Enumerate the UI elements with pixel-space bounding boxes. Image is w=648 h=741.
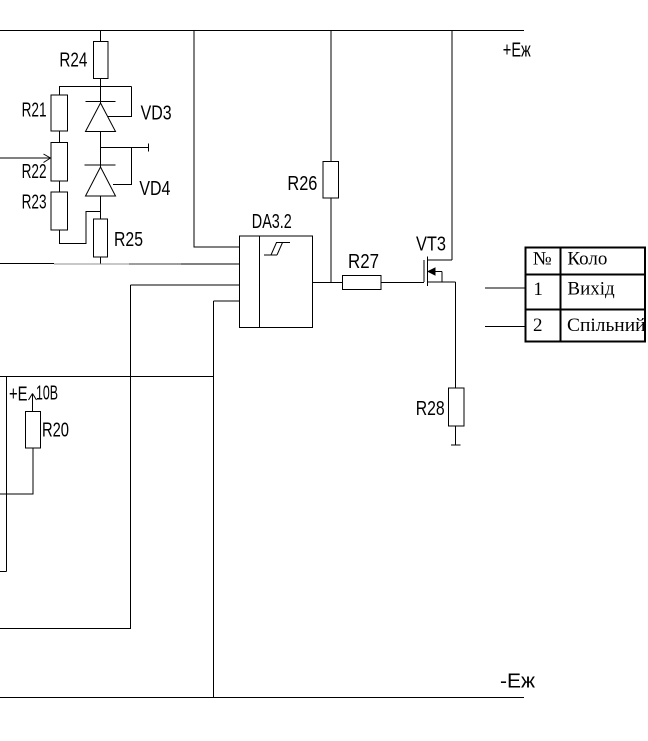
- supply arrow +E: [29, 394, 37, 412]
- wire R24 top lead: [100, 31, 102, 43]
- wire R21-R22 lead: [59, 131, 61, 143]
- wire left edge box vertical: [6, 377, 8, 572]
- svg-text:R27: R27: [348, 251, 379, 273]
- wire connector pin1 stub: [485, 287, 525, 289]
- resistor R25: [94, 219, 108, 257]
- svg-text:-Еж: -Еж: [500, 671, 536, 693]
- wire pin3 vertical drop: [130, 285, 132, 629]
- wire -E bottom rail: [0, 697, 524, 699]
- wire VD4 cathode loop: [113, 148, 132, 185]
- svg-text:R22: R22: [22, 161, 47, 183]
- diode VD3: [86, 102, 116, 132]
- wire R28 bottom lead with tick: [455, 426, 457, 445]
- svg-text:R25: R25: [114, 229, 143, 251]
- resistor R22: [51, 143, 68, 182]
- svg-text:VD3: VD3: [141, 103, 172, 125]
- resistor R26: [323, 162, 339, 199]
- resistor R23: [51, 192, 68, 230]
- resistor R28: [449, 388, 465, 426]
- wire R23 bottom to VD4 node: [60, 212, 101, 244]
- svg-text:Коло: Коло: [567, 249, 607, 270]
- svg-text:R23: R23: [22, 192, 47, 214]
- wire DA3.2 pin4: [214, 300, 241, 302]
- wire R21 top lead: [59, 87, 61, 96]
- svg-text:R20: R20: [42, 420, 69, 442]
- wire DA3.2 pin3: [131, 284, 241, 286]
- svg-text:Вихід: Вихід: [567, 279, 615, 300]
- svg-text:Спільний: Спільний: [567, 315, 646, 336]
- wire R22-R23 lead: [59, 181, 61, 192]
- wire bottom-left horizontal: [0, 628, 131, 630]
- svg-text:R24: R24: [59, 50, 87, 72]
- svg-text:R26: R26: [287, 173, 317, 195]
- svg-text:+Еж: +Еж: [503, 40, 531, 62]
- svg-text:№: №: [533, 249, 552, 270]
- wire R26 bottom lead: [330, 198, 332, 283]
- resistor R21: [51, 95, 68, 131]
- wire VT3 source to R28: [455, 282, 457, 388]
- wire net dark segment: [129, 263, 181, 265]
- wire net to DA3.2 pin2 (right segment): [181, 263, 240, 265]
- wire R20 bottom lead: [32, 448, 34, 494]
- wire R20 bottom horizontal: [0, 493, 34, 495]
- wire R26 top lead from rail: [330, 31, 332, 163]
- wire DA3.2 pin1 from top rail: [194, 31, 240, 248]
- svg-text:10В: 10В: [36, 383, 58, 405]
- wire +E supply rail top: [0, 30, 524, 32]
- svg-text:+Е: +Е: [9, 384, 28, 406]
- arrow into R22 (wiper): [0, 154, 51, 163]
- diode VD4: [85, 165, 116, 196]
- transistor VT3: [424, 31, 456, 287]
- resistor R24: [94, 42, 109, 79]
- svg-text:2: 2: [533, 315, 543, 336]
- wire R25 bottom lead: [100, 257, 102, 264]
- wire net grey segment: [54, 263, 129, 265]
- wire node A horizontal: [59, 86, 132, 88]
- op-amp U DA3.2 box: [240, 236, 313, 328]
- wire pin4 vertical to bottom rail: [213, 301, 215, 697]
- svg-text:R28: R28: [416, 398, 445, 420]
- wire VD4 top lead: [100, 148, 102, 168]
- svg-text:R21: R21: [22, 100, 47, 122]
- wire VD3 cathode loop: [108, 87, 132, 117]
- wire connector pin2 stub: [485, 326, 525, 328]
- wire VD4-R25 lead: [100, 196, 102, 219]
- wire VD3-VD4 lead: [100, 132, 102, 149]
- wire DA3.2 output: [313, 282, 343, 284]
- wire VD3 top lead: [100, 87, 102, 104]
- svg-text:VT3: VT3: [416, 234, 446, 256]
- svg-text:DA3.2: DA3.2: [252, 211, 292, 233]
- svg-text:1: 1: [533, 279, 543, 300]
- wire left edge box bottom: [0, 571, 7, 573]
- node B with terminal tick: [101, 147, 149, 149]
- wire R24 bottom lead: [100, 79, 102, 87]
- wire mid-left horizontal: [0, 376, 214, 378]
- resistor R20: [26, 412, 41, 449]
- svg-text:VD4: VD4: [139, 178, 170, 200]
- resistor R27: [343, 276, 382, 290]
- wire R27 to VT3 gate: [381, 282, 424, 284]
- wire net to DA3.2 pin2 (left segment): [0, 263, 54, 265]
- hysteresis symbol: [264, 243, 290, 256]
- connector table X1: [525, 247, 645, 342]
